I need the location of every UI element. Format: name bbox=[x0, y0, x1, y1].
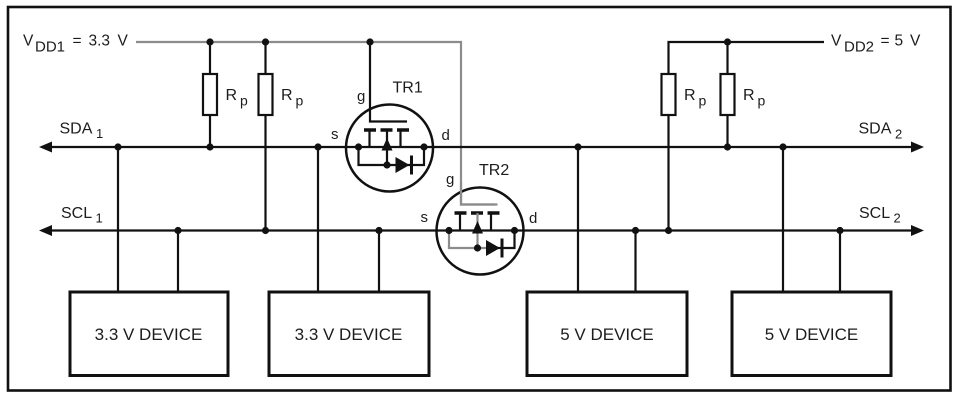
svg-text:3.3 V DEVICE: 3.3 V DEVICE bbox=[295, 325, 403, 344]
TR2 bulk junction dot bbox=[474, 244, 481, 251]
TR1 drain junction dot bbox=[420, 143, 427, 150]
junction dot SCL2/R3 bbox=[665, 227, 672, 234]
transistor TR1 (MOSFET, SDA level shifter) bbox=[346, 42, 433, 192]
svg-text:3.3 V DEVICE: 3.3 V DEVICE bbox=[95, 325, 203, 344]
TR1 body diode bbox=[396, 157, 410, 173]
wire device1 SDA drop bbox=[117, 147, 119, 292]
device box 2 (3.3 V DEVICE) bbox=[269, 292, 429, 376]
TR1 source stub bbox=[368, 130, 370, 147]
wire SDA bus (SDA1-SDA2) bbox=[44, 146, 912, 148]
junction dot SDA2/device4 bbox=[779, 143, 786, 150]
TR1 body-diode loop bbox=[359, 147, 425, 165]
TR1 bulk stub bbox=[386, 130, 388, 166]
TR1 gate lead from VDD1 bbox=[370, 42, 407, 122]
TR2 body diode bbox=[486, 240, 500, 256]
resistor R3 (Rp, VDD2 to SCL2) bbox=[662, 74, 676, 231]
junction dot SDA2/R4 bbox=[724, 143, 731, 150]
TR2 drain stub bbox=[490, 213, 492, 231]
svg-text:d: d bbox=[529, 210, 537, 227]
wire device4 SCL drop bbox=[839, 231, 841, 293]
arrowhead SCL2 right bbox=[911, 225, 924, 236]
wire device2 SDA drop bbox=[317, 147, 319, 292]
resistor R4 (Rp, VDD2 to SDA2) bbox=[721, 42, 735, 147]
junction dot SCL1/device2 bbox=[375, 227, 382, 234]
junction dot SCL2/device3 bbox=[632, 227, 639, 234]
wire device2 SCL drop bbox=[378, 231, 380, 293]
svg-text:d: d bbox=[442, 127, 450, 144]
TR1 bulk junction dot bbox=[383, 161, 390, 168]
arrowhead SCL1 left bbox=[39, 225, 52, 236]
svg-text:5 V DEVICE: 5 V DEVICE bbox=[765, 325, 859, 344]
TR2 source stub bbox=[459, 213, 461, 231]
junction dot SDA1/R1 bbox=[206, 143, 213, 150]
junction dot SDA1/device1 bbox=[114, 143, 121, 150]
junction dot SCL1/device1 bbox=[174, 227, 181, 234]
TR1 drain stub bbox=[399, 130, 401, 147]
TR1 source junction dot bbox=[355, 143, 362, 150]
resistor R1 (Rp, VDD1 to SDA1) bbox=[203, 42, 217, 147]
svg-text:TR2: TR2 bbox=[479, 162, 509, 179]
wire device3 SDA drop bbox=[577, 147, 579, 292]
wire device1 SCL drop bbox=[177, 231, 179, 293]
TR2 bulk arrow bbox=[472, 221, 483, 234]
svg-text:s: s bbox=[331, 126, 339, 143]
TR2 body circle bbox=[437, 188, 524, 275]
junction dot VDD1/R2 bbox=[262, 38, 269, 45]
svg-text:g: g bbox=[446, 171, 454, 188]
arrowhead SDA1 left bbox=[39, 142, 52, 153]
wire device4 SDA drop bbox=[782, 147, 784, 292]
wire SCL bus (SCL1-SCL2) bbox=[44, 229, 912, 231]
TR2 source junction dot bbox=[445, 227, 452, 234]
device box 1 (3.3 V DEVICE) bbox=[70, 292, 228, 376]
junction dot VDD1/R1 bbox=[206, 38, 213, 45]
resistor R2 (Rp, VDD1 to SCL1) bbox=[259, 42, 273, 231]
TR2 channel segments bbox=[455, 211, 467, 215]
junction dot SCL2/device4 bbox=[836, 227, 843, 234]
arrowhead SDA2 right bbox=[911, 142, 924, 153]
TR2 drain junction dot bbox=[511, 227, 518, 234]
wire device3 SCL drop bbox=[634, 231, 636, 293]
TR2 body-diode loop bbox=[449, 231, 489, 249]
svg-text:s: s bbox=[421, 209, 429, 226]
TR1 channel segments bbox=[364, 128, 376, 132]
junction dot SDA2/device3 bbox=[574, 143, 581, 150]
junction dot VDD1/TR1 gate bbox=[366, 38, 373, 45]
TR2 bulk stub bbox=[476, 213, 478, 249]
svg-text:5 V DEVICE: 5 V DEVICE bbox=[560, 325, 654, 344]
transistor TR2 (MOSFET, SCL level shifter) bbox=[437, 182, 524, 275]
junction dot SCL1/R2 bbox=[262, 227, 269, 234]
junction dot SDA1/device2 bbox=[314, 143, 321, 150]
device box 3 (5 V DEVICE) bbox=[527, 292, 687, 376]
net VDD1 rail (grey) bbox=[136, 42, 495, 205]
svg-text:g: g bbox=[357, 88, 365, 105]
TR1 bulk arrow bbox=[382, 138, 393, 151]
svg-text:TR1: TR1 bbox=[393, 80, 423, 97]
junction dot VDD2/R4 bbox=[724, 38, 731, 45]
TR2 gate lead (grey, from VDD1) bbox=[461, 182, 498, 205]
net VDD2 rail bbox=[669, 42, 825, 74]
device box 4 (5 V DEVICE) bbox=[732, 292, 891, 376]
TR1 body circle bbox=[346, 105, 433, 192]
